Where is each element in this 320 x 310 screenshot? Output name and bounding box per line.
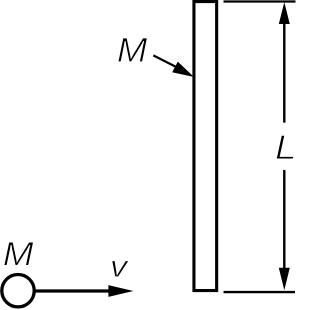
bottom extension line [224, 291, 296, 293]
leader arrow from M to rod [153, 55, 194, 77]
ball (circle, mass M) [2, 275, 34, 307]
label M (rod) [118, 38, 147, 62]
label M (ball) [4, 242, 34, 265]
dimension line lower segment with down arrowhead [279, 170, 290, 290]
top extension line [224, 0, 296, 2]
velocity arrow v [34, 285, 133, 297]
dimension line upper segment with up arrowhead [279, 2, 290, 122]
label v [112, 261, 129, 277]
rod (rectangle, mass M, length L) [194, 2, 217, 291]
label L [276, 135, 294, 159]
